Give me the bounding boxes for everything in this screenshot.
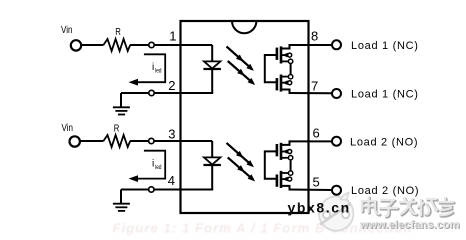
svg-text:www.elecfans.com: www.elecfans.com: [359, 219, 460, 231]
pin 8 terminal: [332, 40, 341, 49]
svg-text:ybx8.cn: ybx8.cn: [288, 200, 351, 216]
svg-text:Load 1 (NC): Load 1 (NC): [351, 40, 419, 52]
svg-text:7: 7: [311, 79, 318, 94]
svg-text:R: R: [114, 123, 120, 135]
MOSFET Q3: [277, 141, 293, 160]
package notch: [232, 21, 256, 33]
label i_led1: [152, 62, 162, 75]
input terminal Vin2: [70, 136, 80, 146]
wire pin 2 horizontal: [121, 92, 213, 94]
svg-text:Load 2 (NO): Load 2 (NO): [350, 136, 418, 148]
gate net Q3/Q4: [265, 151, 277, 178]
watermark figure caption: [0, 0, 1, 1]
current arrow i_led2: [129, 151, 166, 182]
photon arrows opto2: [227, 143, 258, 184]
wire pin 7: [289, 92, 332, 94]
svg-text:6: 6: [313, 126, 320, 141]
ground GND1: [113, 93, 130, 115]
wire pin 3 to LED D2 anode: [154, 141, 212, 157]
watermark 电子发烧友: [362, 197, 454, 217]
MOSFET Q1: [277, 45, 293, 64]
wire pin 4 horizontal: [121, 189, 213, 191]
svg-text:2: 2: [168, 78, 175, 93]
svg-text:Load 1 (NC): Load 1 (NC): [351, 88, 419, 100]
wire pin 8: [289, 44, 332, 46]
wire pin 1 to LED D1 anode: [154, 45, 212, 61]
MOSFET Q4: [277, 171, 293, 190]
svg-text:8: 8: [311, 29, 318, 44]
MOSFET Q2: [277, 75, 293, 94]
resistor R1: [103, 39, 130, 51]
pin 7 terminal: [332, 89, 341, 98]
current arrow i_led1: [129, 54, 166, 85]
svg-text:3: 3: [168, 127, 175, 142]
svg-text:R: R: [115, 26, 121, 38]
wire R1 to pin 1: [130, 44, 149, 46]
wire LED D2 cathode to pin 4: [211, 165, 213, 190]
source interconnect Q1-Q2: [290, 64, 292, 75]
watermark www.elecfans.com: [359, 219, 461, 232]
wire Vin1 to R1: [82, 44, 104, 46]
svg-text:led: led: [155, 68, 162, 75]
ground GND2: [113, 190, 130, 211]
LED D2: [203, 157, 221, 165]
watermark logo circle: [319, 193, 353, 231]
pin 3 terminal: [149, 138, 154, 143]
pin 1 terminal: [149, 42, 154, 47]
IC package outline: [181, 21, 309, 213]
svg-text:i: i: [152, 159, 154, 170]
input terminal Vin1: [71, 40, 81, 50]
svg-text:1: 1: [169, 29, 176, 44]
LED D1: [203, 61, 221, 69]
pin 6 terminal: [332, 137, 341, 146]
label i_led2: [152, 159, 162, 172]
svg-text:Vin: Vin: [62, 123, 74, 134]
svg-text:led: led: [155, 164, 162, 171]
source interconnect Q3-Q4: [290, 160, 292, 171]
photon arrows opto1: [227, 47, 258, 88]
wire R2 to pin 3: [130, 140, 149, 142]
svg-text:Vin: Vin: [61, 25, 73, 36]
svg-text:4: 4: [168, 173, 175, 188]
svg-text:i: i: [152, 62, 154, 73]
wire LED D1 cathode to pin 2: [211, 69, 213, 93]
pin 2 terminal: [149, 90, 154, 95]
svg-text:5: 5: [313, 175, 320, 190]
gate net Q1/Q2: [265, 55, 277, 82]
wire pin 5: [289, 189, 332, 192]
pin 5 terminal: [332, 186, 341, 195]
resistor R2: [103, 135, 130, 147]
wire Vin2 to R2: [80, 140, 103, 142]
pin 4 terminal: [149, 187, 154, 192]
wire pin 6: [289, 140, 332, 142]
svg-text:Load 2 (NO): Load 2 (NO): [351, 185, 419, 197]
